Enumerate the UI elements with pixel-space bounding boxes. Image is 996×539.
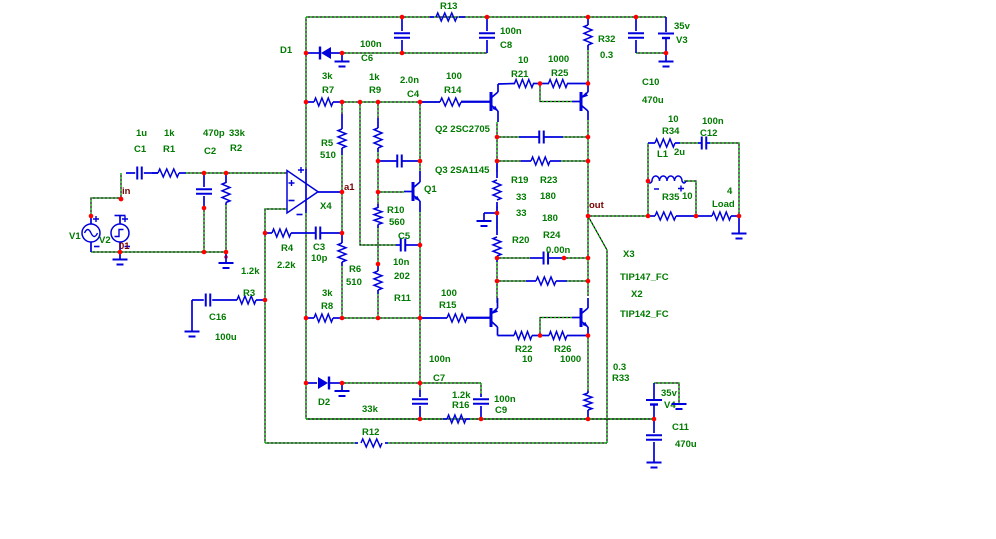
- wire column x378 bottom: [377, 294, 379, 318]
- svg-text:2.2k: 2.2k: [277, 260, 296, 271]
- wire R12 row left: [265, 442, 355, 444]
- svg-text:202: 202: [394, 271, 410, 282]
- wire x588 vas: [587, 120, 589, 296]
- resistor R33: [584, 391, 592, 419]
- ground C16: [185, 331, 200, 337]
- label R4: [281, 243, 294, 254]
- label 1000 R25: [548, 54, 569, 65]
- wire D2 row: [342, 382, 481, 384]
- svg-text:R21: R21: [511, 69, 529, 80]
- svg-text:V2: V2: [99, 235, 111, 246]
- svg-text:100u: 100u: [215, 332, 237, 343]
- svg-text:10: 10: [518, 55, 529, 66]
- svg-text:C16: C16: [209, 312, 226, 323]
- node out label: [589, 200, 605, 211]
- voltage source V1: [82, 216, 100, 252]
- svg-text:V3: V3: [676, 35, 688, 46]
- wire upper base link: [540, 84, 572, 102]
- resistor R3: [212, 296, 265, 304]
- label R19: [511, 175, 528, 186]
- capacitor C6: [394, 17, 410, 53]
- svg-text:R1: R1: [163, 144, 176, 155]
- svg-text:C3: C3: [313, 242, 325, 253]
- label 100n C7: [429, 354, 451, 365]
- svg-text:TIP142_FC: TIP142_FC: [620, 309, 669, 320]
- svg-text:2u: 2u: [674, 147, 685, 158]
- svg-text:R10: R10: [387, 205, 404, 216]
- resistor R6: [338, 233, 346, 266]
- label 470u C11: [675, 439, 697, 450]
- label Q2 2SC2705: [435, 124, 491, 135]
- resistor R12: [355, 439, 388, 447]
- label C1: [134, 144, 147, 155]
- svg-text:R4: R4: [281, 243, 294, 254]
- inductor L1: [648, 176, 686, 192]
- label C12: [700, 128, 717, 139]
- ground below R2: [219, 252, 234, 268]
- svg-text:33k: 33k: [362, 404, 379, 415]
- wire R2 bottom: [225, 205, 227, 252]
- svg-text:1000: 1000: [560, 354, 581, 365]
- svg-text:R2: R2: [230, 143, 242, 154]
- label R26: [554, 344, 571, 355]
- wire cap137 leads r: [563, 136, 588, 138]
- svg-text:C11: C11: [672, 422, 690, 433]
- wire R8 row: [342, 317, 440, 319]
- ground below V3: [659, 53, 674, 67]
- label 510 R5: [320, 150, 336, 161]
- svg-text:470u: 470u: [675, 439, 697, 450]
- label R10: [387, 205, 404, 216]
- resistor R21: [515, 80, 541, 88]
- resistor R26: [540, 332, 588, 340]
- resistor R10: [374, 204, 382, 228]
- resistor R32: [584, 17, 592, 50]
- label 1.2k: [241, 266, 260, 277]
- capacitor C1: [126, 167, 158, 180]
- svg-text:R19: R19: [511, 175, 528, 186]
- svg-text:0.3: 0.3: [613, 362, 626, 373]
- svg-text:Q3 2SA1145: Q3 2SA1145: [435, 165, 490, 176]
- ground C11: [647, 462, 662, 468]
- label C16: [209, 312, 226, 323]
- label TIP142_FC: [620, 309, 669, 320]
- svg-text:R33: R33: [612, 373, 629, 384]
- label R1: [163, 144, 176, 155]
- wire Q2 collector top: [498, 83, 515, 86]
- svg-text:4: 4: [727, 186, 733, 197]
- label 1k: [164, 128, 175, 139]
- label R13: [440, 1, 457, 12]
- label 10p: [311, 253, 328, 264]
- svg-text:L1: L1: [657, 149, 669, 160]
- wire x588 upper: [587, 50, 589, 83]
- label V4: [664, 400, 676, 411]
- resistor R16: [443, 415, 470, 423]
- label 1u: [136, 128, 147, 139]
- wire res281 leads: [497, 280, 526, 282]
- svg-text:R13: R13: [440, 1, 457, 12]
- wire C9 drop: [480, 383, 482, 394]
- wire column x378 low: [377, 228, 379, 264]
- svg-text:R16: R16: [452, 400, 469, 411]
- svg-text:in: in: [122, 186, 131, 197]
- label R24: [543, 230, 561, 241]
- resistor R1: [152, 169, 186, 177]
- wire source bottom rail: [91, 251, 226, 253]
- svg-text:TIP147_FC: TIP147_FC: [620, 272, 669, 283]
- label R15: [439, 300, 457, 311]
- wire left supply rail lower: [305, 213, 307, 419]
- capacitor C3: [310, 227, 342, 240]
- transistor Q3 lower PNP: [466, 298, 498, 336]
- capacitor C16: [192, 294, 210, 332]
- label R9: [369, 85, 381, 96]
- capacitor C4: [378, 155, 420, 168]
- label R25: [551, 68, 569, 79]
- label C6: [361, 53, 373, 64]
- wire x588 lower: [587, 335, 589, 391]
- svg-text:C8: C8: [500, 40, 512, 51]
- svg-text:R34: R34: [662, 126, 680, 137]
- label 2.0n: [400, 75, 419, 86]
- label 33k D2row: [362, 404, 379, 415]
- wire res161 leads r: [561, 160, 588, 162]
- svg-text:100n: 100n: [494, 394, 516, 405]
- label 0.3 R33: [613, 362, 626, 373]
- label X3: [623, 249, 635, 260]
- wire out row: [588, 215, 648, 217]
- resistor R11: [374, 264, 382, 294]
- label R7: [322, 85, 334, 96]
- op-amp X4: [287, 167, 342, 215]
- svg-text:X4: X4: [320, 201, 332, 212]
- svg-text:C10: C10: [642, 77, 659, 88]
- label 2u: [674, 147, 685, 158]
- wire feedback column: [264, 233, 266, 443]
- wire column x360: [360, 102, 396, 245]
- wire V4 loop: [654, 383, 679, 403]
- label D1: [280, 45, 293, 56]
- resistor row281: [526, 277, 567, 285]
- svg-text:3k: 3k: [322, 288, 333, 299]
- label V3: [676, 35, 688, 46]
- svg-text:1k: 1k: [164, 128, 175, 139]
- svg-text:1.2k: 1.2k: [241, 266, 260, 277]
- label 180 a: [540, 191, 556, 202]
- capacitor C5: [396, 239, 420, 252]
- svg-text:C5: C5: [398, 231, 411, 242]
- label R16: [452, 400, 469, 411]
- svg-text:3k: 3k: [322, 71, 333, 82]
- resistor R7: [306, 98, 342, 106]
- label 33 b: [516, 208, 527, 219]
- label Q1: [424, 184, 437, 195]
- ground load: [732, 216, 747, 239]
- wire R12 row right: [388, 442, 607, 444]
- svg-text:1000: 1000: [548, 54, 569, 65]
- wire x497 Q2emitter: [496, 122, 498, 172]
- label 560: [389, 217, 405, 228]
- label R34: [662, 126, 680, 137]
- label R5: [321, 138, 334, 149]
- wire L1 column: [647, 143, 649, 216]
- label C3: [313, 242, 325, 253]
- svg-text:out: out: [589, 200, 605, 211]
- label R12: [362, 427, 379, 438]
- wire x497 mid: [496, 206, 498, 230]
- svg-text:33k: 33k: [229, 128, 246, 139]
- label C5: [398, 231, 411, 242]
- label R22: [515, 344, 532, 355]
- wire column x378 top: [377, 102, 379, 118]
- resistor R25: [540, 80, 588, 88]
- svg-text:510: 510: [346, 277, 362, 288]
- label 470p: [203, 128, 225, 139]
- label X4: [320, 201, 332, 212]
- capacitor C11: [646, 419, 662, 462]
- svg-text:R3: R3: [243, 288, 255, 299]
- wire R7 row to R14: [342, 101, 440, 103]
- svg-text:R24: R24: [543, 230, 561, 241]
- label C10: [642, 77, 659, 88]
- svg-text:R6: R6: [349, 264, 361, 275]
- svg-text:R7: R7: [322, 85, 334, 96]
- wire in node to V1: [91, 198, 121, 216]
- wire left supply rail upper: [305, 17, 307, 170]
- label 10 R22: [522, 354, 533, 365]
- capacitor C9: [473, 394, 489, 419]
- svg-text:V1: V1: [69, 231, 81, 242]
- svg-text:100: 100: [441, 288, 457, 299]
- wire Q1 emitter to C5 row: [419, 212, 421, 318]
- svg-text:10p: 10p: [311, 253, 328, 264]
- ground V4: [672, 403, 687, 409]
- label R33: [612, 373, 629, 384]
- node in label: [122, 186, 131, 197]
- wire lower base link: [540, 318, 572, 336]
- resistor R5: [338, 114, 346, 155]
- capacitor row258 0.00n: [530, 252, 564, 265]
- wire res281 leads r: [567, 280, 588, 282]
- resistor R35: [648, 212, 696, 220]
- capacitor C10: [628, 17, 644, 53]
- resistor R22: [514, 332, 540, 340]
- node out dot: [586, 214, 591, 219]
- resistor R15: [420, 314, 490, 322]
- svg-text:100n: 100n: [500, 26, 522, 37]
- node in dot: [119, 197, 124, 202]
- svg-text:Q1: Q1: [424, 184, 437, 195]
- label C4: [407, 89, 420, 100]
- wire top positive rail: [306, 16, 666, 18]
- svg-text:R35: R35: [662, 192, 680, 203]
- resistor R4: [265, 229, 310, 237]
- svg-text:a1: a1: [344, 182, 355, 193]
- label 10 R21: [518, 55, 529, 66]
- svg-text:C4: C4: [407, 89, 420, 100]
- svg-text:180: 180: [542, 213, 558, 224]
- svg-text:V4: V4: [664, 400, 676, 411]
- resistor R8: [306, 314, 342, 322]
- label X2: [631, 289, 643, 300]
- battery V3: [658, 17, 674, 53]
- svg-text:10: 10: [522, 354, 533, 365]
- node 01 label: [119, 241, 130, 252]
- label 1000 R26: [560, 354, 581, 365]
- wire out to R12 column: [588, 216, 607, 443]
- transistor X3 upper PNP: [572, 84, 588, 121]
- svg-text:C2: C2: [204, 146, 216, 157]
- wire column x378 mid: [377, 152, 379, 204]
- transistor X2 lower NPN: [572, 298, 588, 336]
- svg-text:C7: C7: [433, 373, 445, 384]
- svg-text:35v: 35v: [661, 388, 678, 399]
- label 180 b: [542, 213, 558, 224]
- voltage source V2: [111, 216, 130, 253]
- svg-text:D2: D2: [318, 397, 330, 408]
- svg-text:100n: 100n: [360, 39, 382, 50]
- label 3k R8: [322, 288, 333, 299]
- label R3: [243, 288, 255, 299]
- svg-text:33: 33: [516, 208, 527, 219]
- resistor Load: [696, 212, 739, 220]
- label R23: [540, 175, 557, 186]
- resistor R14: [420, 98, 490, 106]
- svg-text:R12: R12: [362, 427, 379, 438]
- wire Q1 base: [378, 191, 404, 193]
- label 1k R9: [369, 72, 380, 83]
- label C11: [672, 422, 690, 433]
- wire input to opamp noninv: [186, 172, 287, 174]
- svg-text:R25: R25: [551, 68, 569, 79]
- wire column x420 lower: [419, 318, 421, 390]
- wire R16 row right: [470, 418, 654, 420]
- label R14: [444, 85, 462, 96]
- svg-text:R15: R15: [439, 300, 457, 311]
- svg-text:C9: C9: [495, 405, 507, 416]
- wire R16 row left: [306, 418, 443, 420]
- svg-text:X2: X2: [631, 289, 643, 300]
- label TIP147_FC: [620, 272, 669, 283]
- svg-text:180: 180: [540, 191, 556, 202]
- capacitor C7: [412, 390, 428, 419]
- label 33k: [229, 128, 246, 139]
- resistor R19: [493, 161, 501, 213]
- svg-text:R14: R14: [444, 85, 462, 96]
- transistor Q2: [461, 84, 498, 122]
- svg-text:100: 100: [446, 71, 462, 82]
- label 100n C12: [702, 116, 724, 127]
- wire D1 node to C8: [342, 52, 487, 54]
- label 100n C6: [360, 39, 382, 50]
- label R2: [230, 143, 242, 154]
- label Q3 2SA1145: [435, 165, 490, 176]
- svg-text:Q2 2SC2705: Q2 2SC2705: [435, 124, 491, 135]
- label V1: [69, 231, 81, 242]
- label 3k R7: [322, 71, 333, 82]
- label 100u: [215, 332, 237, 343]
- resistor R34: [648, 139, 680, 147]
- svg-text:560: 560: [389, 217, 405, 228]
- label 510 R6: [346, 277, 362, 288]
- resistor R2: [222, 173, 230, 205]
- svg-text:Load: Load: [712, 199, 735, 210]
- wire in node vertical: [120, 173, 122, 199]
- label C7: [433, 373, 445, 384]
- label 35v V4: [661, 388, 678, 399]
- svg-text:R9: R9: [369, 85, 381, 96]
- diode D1: [306, 47, 342, 60]
- wire column x342 top: [341, 102, 343, 114]
- resistor R20: [493, 213, 501, 262]
- ground right of D1: [335, 53, 350, 67]
- label 1.2k R16: [452, 390, 471, 401]
- svg-text:10: 10: [682, 191, 693, 202]
- label 33 a: [516, 192, 527, 203]
- label C2: [204, 146, 216, 157]
- label L1: [657, 149, 669, 160]
- ground below V2: [113, 252, 128, 265]
- mid ground stub: [477, 213, 498, 226]
- label 100n C9: [494, 394, 516, 405]
- wire negative rail bottom: [306, 418, 654, 420]
- svg-text:10: 10: [668, 114, 679, 125]
- resistor R9: [374, 118, 382, 152]
- label 100 R15: [441, 288, 457, 299]
- wire Q3 collector: [498, 335, 515, 337]
- label 10n: [393, 257, 410, 268]
- label R32: [598, 34, 615, 45]
- label R35: [662, 192, 680, 203]
- label R21: [511, 69, 529, 80]
- diode D2: [306, 377, 342, 390]
- label C8: [500, 40, 512, 51]
- transistor Q1: [404, 171, 420, 212]
- wire L1 right: [684, 181, 696, 216]
- wire C2 bottom: [203, 208, 205, 252]
- resistor R13: [430, 13, 465, 21]
- wire opamp inv input: [265, 209, 287, 233]
- node a1 dot: [340, 190, 345, 195]
- svg-text:35v: 35v: [674, 21, 691, 32]
- label 2.2k: [277, 260, 296, 271]
- capacitor row137: [519, 131, 563, 144]
- svg-text:100n: 100n: [429, 354, 451, 365]
- svg-text:R5: R5: [321, 138, 334, 149]
- label R11: [394, 293, 412, 304]
- label R20: [512, 235, 529, 246]
- svg-text:R20: R20: [512, 235, 529, 246]
- capacitor C8: [479, 17, 495, 53]
- svg-text:D1: D1: [280, 45, 293, 56]
- wire R34 to C12: [680, 142, 698, 144]
- svg-text:2.0n: 2.0n: [400, 75, 419, 86]
- wire C10 gnd link: [636, 52, 666, 54]
- label Load: [712, 199, 735, 210]
- ground right of D2: [335, 383, 350, 396]
- capacitor C2: [196, 173, 212, 208]
- wire x497 low: [496, 262, 498, 303]
- label D2: [318, 397, 330, 408]
- svg-text:X3: X3: [623, 249, 635, 260]
- wire C12 to load top: [710, 143, 739, 216]
- svg-text:100n: 100n: [702, 116, 724, 127]
- wire cap137 leads: [497, 136, 519, 138]
- wire column a1 upper: [341, 155, 343, 233]
- svg-text:33: 33: [516, 192, 527, 203]
- label 100n C8: [500, 26, 522, 37]
